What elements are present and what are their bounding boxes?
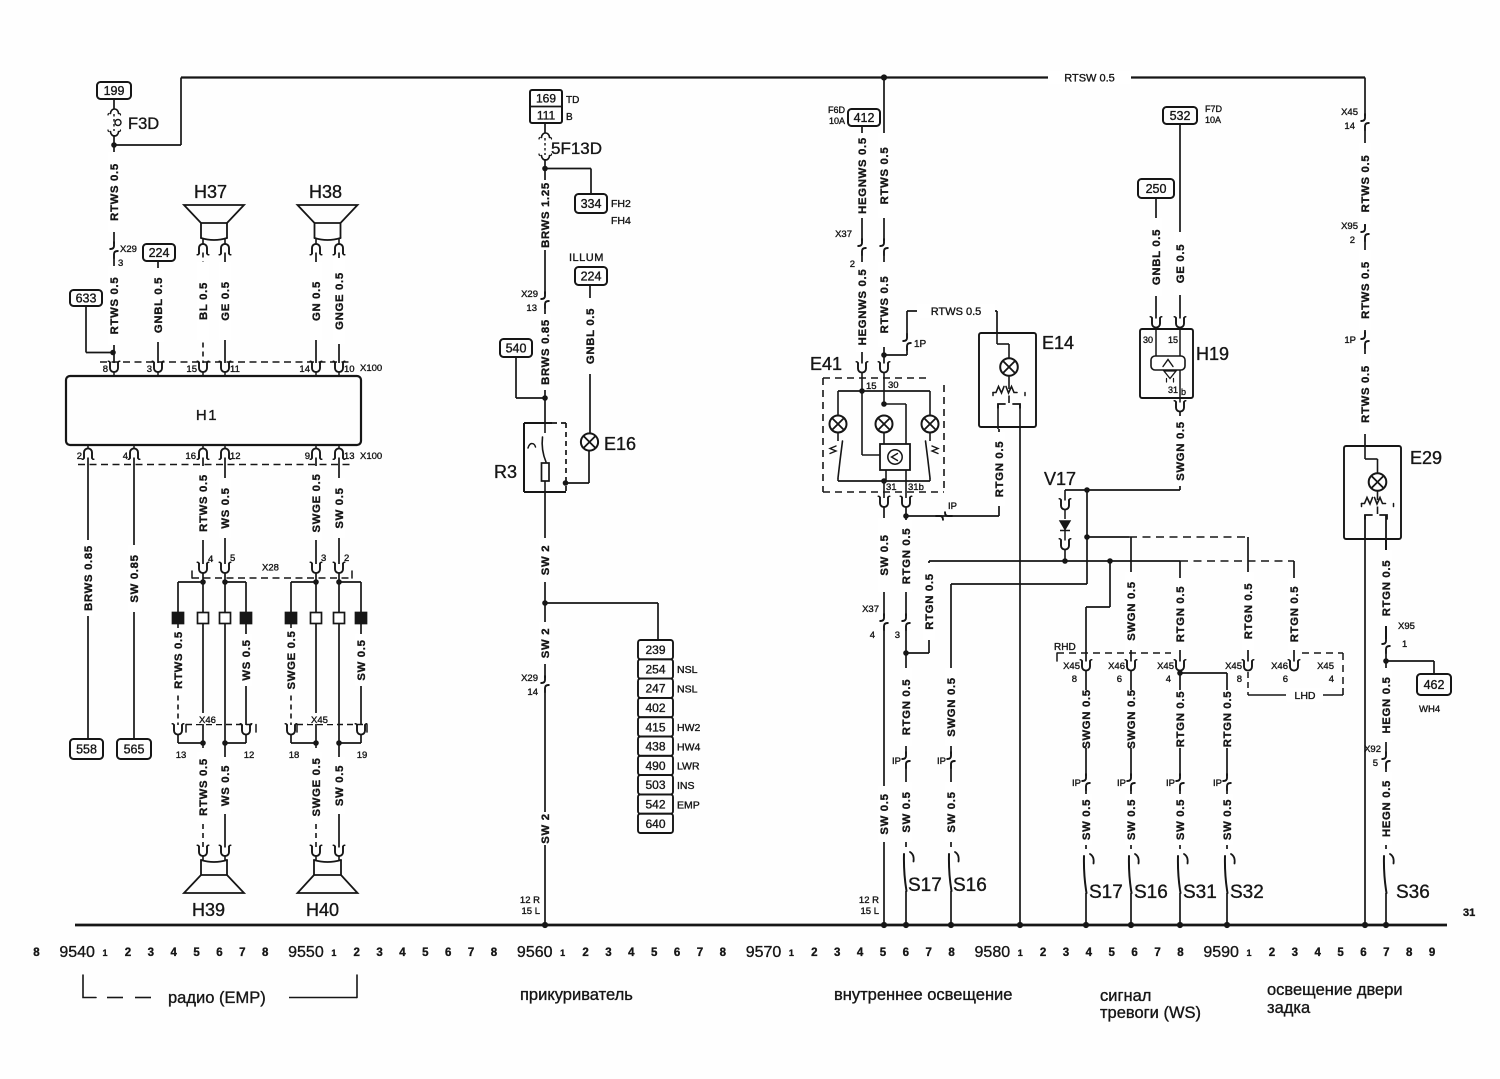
wire E29 left terminal to ground bus <box>1362 539 1368 928</box>
connector terminal squares <box>173 613 367 624</box>
wire dashed header to S16 interior <box>951 583 1087 585</box>
connector X45 pin 8 LHD <box>1225 660 1254 685</box>
svg-text:8: 8 <box>1237 674 1242 685</box>
distribution terminal boxes 239-640 <box>638 640 700 833</box>
connector X29 pin 3 <box>110 242 137 269</box>
wire SWGN 0.5 H19 to V17 <box>1065 412 1187 493</box>
svg-text:X45: X45 <box>1341 107 1358 118</box>
svg-text:RTGN 0.5: RTGN 0.5 <box>901 528 913 584</box>
svg-text:8: 8 <box>1072 674 1077 685</box>
svg-text:6: 6 <box>1360 947 1366 959</box>
svg-text:EMP: EMP <box>677 799 700 811</box>
wire SWGE 0.5 H1 pin 9 to X28 pin 3 <box>310 458 327 565</box>
svg-text:8: 8 <box>1406 947 1413 959</box>
svg-text:X46: X46 <box>199 715 216 726</box>
svg-text:IP: IP <box>1072 778 1081 789</box>
loudspeaker H39 <box>184 845 244 920</box>
connector IP instrument panel <box>903 334 926 350</box>
connector X46 pin 6 LHD <box>1271 660 1300 685</box>
connector X29 pin 14 <box>521 673 549 698</box>
wire SWGN 0.5 to alarm S17 <box>1080 671 1093 777</box>
svg-text:169: 169 <box>536 92 556 106</box>
svg-text:R3: R3 <box>494 462 517 482</box>
wire square to X45 junction left <box>315 624 317 744</box>
LHD variant marker <box>1248 653 1343 702</box>
connector X45 radio <box>285 713 367 761</box>
svg-text:RTWS 0.5: RTWS 0.5 <box>109 163 121 221</box>
svg-text:LHD: LHD <box>1294 690 1315 702</box>
svg-text:FH2: FH2 <box>611 198 631 210</box>
E41 lamp 2 to rheostat <box>883 433 885 445</box>
svg-text:SWGN 0.5: SWGN 0.5 <box>1126 581 1138 641</box>
wire junction through connector IP to E14 <box>906 501 999 520</box>
wire RTWS 0.5 X29 to H1 pin 8 <box>108 258 121 363</box>
svg-text:1: 1 <box>560 948 565 958</box>
svg-text:SWGN 0.5: SWGN 0.5 <box>1126 689 1138 749</box>
svg-text:3: 3 <box>1063 947 1069 959</box>
svg-text:X45: X45 <box>1317 661 1334 672</box>
loudspeaker H38 <box>298 182 358 255</box>
radio unit H1 <box>66 376 361 445</box>
wire 199 to fuse F3D <box>113 99 115 109</box>
svg-text:WS 0.5: WS 0.5 <box>220 487 232 528</box>
wire SW 0.5 to alarm S16 <box>1125 790 1138 849</box>
wire WS 0.5 square to X46 pin 12 <box>240 624 253 726</box>
svg-text:RTWS 0.5: RTWS 0.5 <box>109 277 121 335</box>
svg-text:10: 10 <box>344 364 355 375</box>
svg-text:SW 2: SW 2 <box>540 545 552 575</box>
wire RTWS 0.5 to lamp E29 <box>1359 348 1372 446</box>
svg-text:5: 5 <box>651 947 658 959</box>
diode V17 <box>1044 469 1076 564</box>
connector X28 <box>192 560 352 578</box>
svg-text:30: 30 <box>888 380 899 391</box>
connector IP alarm S17 <box>1072 774 1090 790</box>
wire SW 2 to X29 pin 14 <box>539 603 552 678</box>
svg-text:565: 565 <box>124 743 145 757</box>
wire E14 to ground bus <box>1017 427 1023 928</box>
svg-text:прикуриватель: прикуриватель <box>520 986 633 1004</box>
connector X45 pin 4 LHD label <box>1317 661 1334 685</box>
connector X37 pin 1 <box>880 239 888 255</box>
svg-text:1P: 1P <box>1344 335 1356 346</box>
svg-text:15 L: 15 L <box>522 906 541 917</box>
svg-text:освещение двери: освещение двери <box>1267 981 1403 999</box>
svg-text:FH4: FH4 <box>611 215 631 227</box>
svg-text:F7D: F7D <box>1205 104 1223 114</box>
svg-text:RTGN 0.5: RTGN 0.5 <box>1175 586 1187 642</box>
caption interior lighting <box>834 986 1012 1004</box>
svg-text:402: 402 <box>645 701 665 715</box>
svg-text:IP: IP <box>1213 778 1222 789</box>
wire BRWS 1.25 to X29 pin 13 <box>539 169 552 295</box>
wire RTWS 0.5 H1 pin 16 to X28 pin 4 <box>197 458 214 566</box>
wire RTGN 0.5 up to lamp E14 <box>993 429 1006 516</box>
svg-text:9550: 9550 <box>288 944 324 961</box>
branch junction to connector IP <box>884 350 907 355</box>
svg-text:RTWS 0.5: RTWS 0.5 <box>1360 155 1372 213</box>
svg-text:8: 8 <box>262 947 269 959</box>
svg-text:6: 6 <box>445 947 451 959</box>
wire SW 0.5 to switch S16 interior <box>945 768 958 847</box>
connector X45 pin 14 <box>1341 107 1369 132</box>
svg-text:H37: H37 <box>194 182 227 202</box>
svg-text:H38: H38 <box>309 182 342 202</box>
svg-text:4: 4 <box>870 630 875 641</box>
connector X100 top row <box>100 361 382 376</box>
svg-text:SW 2: SW 2 <box>540 628 552 658</box>
svg-text:4: 4 <box>1329 674 1334 685</box>
wire GE 0.5 H37 to H1 pin 11 <box>219 253 232 364</box>
svg-text:F3D: F3D <box>128 115 159 133</box>
wire junction to distribution boxes <box>545 603 658 640</box>
svg-text:X29: X29 <box>521 673 538 684</box>
svg-text:GE 0.5: GE 0.5 <box>220 281 232 320</box>
svg-text:SWGN 0.5: SWGN 0.5 <box>1081 689 1093 749</box>
tailgate lamp E29 <box>1344 446 1442 539</box>
svg-text:18: 18 <box>289 750 300 761</box>
svg-text:30: 30 <box>1143 335 1153 345</box>
svg-text:1: 1 <box>1018 948 1023 958</box>
svg-text:RTGN 0.5: RTGN 0.5 <box>1243 583 1255 639</box>
wire GNGE 0.5 H38 to H1 pin 10 <box>333 253 346 364</box>
wire RTGN 0.5 dashed to X45 pin 8 LHD <box>1242 537 1255 662</box>
svg-text:SW 0.5: SW 0.5 <box>1175 799 1187 840</box>
svg-text:540: 540 <box>506 342 527 356</box>
svg-text:RTGN 0.5: RTGN 0.5 <box>1381 560 1393 616</box>
wire HEGN 0.5 to switch S36 <box>1380 768 1393 849</box>
connector X95 pin 2 <box>1341 221 1369 246</box>
svg-text:X29: X29 <box>521 289 538 300</box>
current track numbers <box>33 944 1435 961</box>
svg-text:2: 2 <box>1350 235 1355 246</box>
svg-text:7: 7 <box>926 947 932 959</box>
wire SW 0.5 to alarm S17 <box>1080 790 1093 849</box>
svg-text:2: 2 <box>850 259 855 270</box>
wire BL 0.5 H37 to H1 pin 15 <box>197 253 210 364</box>
svg-text:15 L: 15 L <box>861 906 880 917</box>
svg-text:S16: S16 <box>953 875 987 896</box>
svg-text:BRWS 0.85: BRWS 0.85 <box>540 319 552 385</box>
wire BRWS 0.85 X29 to R3 <box>539 308 552 423</box>
svg-text:9: 9 <box>1429 947 1435 959</box>
svg-text:1: 1 <box>103 948 108 958</box>
door switch S32 alarm <box>1224 854 1264 928</box>
svg-text:X45: X45 <box>1157 661 1174 672</box>
fuse F3D <box>108 109 159 136</box>
interior lamp E41 enclosure <box>810 354 944 492</box>
svg-text:3: 3 <box>376 947 382 959</box>
svg-text:RTGN 0.5: RTGN 0.5 <box>994 441 1006 497</box>
door switch S17 interior <box>903 852 942 928</box>
wire SW 0.5 H1 pin 13 to X28 pin 2 <box>333 458 350 565</box>
loudspeaker H40 <box>298 845 358 920</box>
svg-text:5: 5 <box>880 947 887 959</box>
svg-text:239: 239 <box>645 643 665 657</box>
svg-text:X29: X29 <box>120 244 137 255</box>
wire RTGN 0.5 to alarm S32 <box>1221 678 1234 776</box>
svg-text:5: 5 <box>1109 947 1116 959</box>
svg-text:4: 4 <box>208 554 213 565</box>
svg-text:6: 6 <box>674 947 680 959</box>
wire V17 bypass vertical <box>1084 490 1090 584</box>
svg-text:внутреннее освещение: внутреннее освещение <box>834 986 1012 1004</box>
terminal box 462 WH4 <box>1417 674 1451 715</box>
wire RTGN 0.5 header to X45 pin 4 <box>1174 561 1187 662</box>
svg-text:633: 633 <box>76 292 97 306</box>
svg-text:RTSW 0.5: RTSW 0.5 <box>1064 73 1115 85</box>
svg-text:10A: 10A <box>1205 115 1221 125</box>
svg-text:X46: X46 <box>1271 661 1288 672</box>
svg-text:HEGNWS 0.5: HEGNWS 0.5 <box>857 269 869 346</box>
wire SW 0.5 E41 pin 31 to X37 pin 4 <box>878 507 891 616</box>
svg-text:6: 6 <box>1283 674 1288 685</box>
svg-text:8: 8 <box>103 364 108 375</box>
svg-text:13: 13 <box>526 303 537 314</box>
svg-text:12: 12 <box>244 750 255 761</box>
svg-text:15: 15 <box>1168 335 1178 345</box>
svg-text:H40: H40 <box>306 900 339 920</box>
wire dashed upper header <box>1087 536 1248 538</box>
svg-text:IP: IP <box>1117 778 1126 789</box>
svg-text:15: 15 <box>186 364 197 375</box>
svg-text:31: 31 <box>886 482 897 493</box>
svg-text:31b: 31b <box>908 482 924 493</box>
svg-text:8: 8 <box>33 947 40 959</box>
X46 junctions to speaker H39 <box>178 735 246 746</box>
svg-text:SW 0.5: SW 0.5 <box>879 793 891 834</box>
wire SWGN 0.5 header to S16 interior <box>945 584 958 754</box>
svg-text:V17: V17 <box>1044 469 1076 489</box>
svg-text:WS 0.5: WS 0.5 <box>220 765 232 806</box>
svg-text:E14: E14 <box>1042 333 1074 353</box>
svg-text:10A: 10A <box>829 116 845 126</box>
svg-text:9580: 9580 <box>975 944 1011 961</box>
svg-text:8: 8 <box>491 947 498 959</box>
svg-text:9570: 9570 <box>746 944 782 961</box>
svg-text:5: 5 <box>193 947 200 959</box>
terminal box 633 <box>70 290 102 306</box>
svg-text:X46: X46 <box>1108 661 1125 672</box>
wire junction to top bus <box>114 78 181 146</box>
svg-text:IP: IP <box>1166 778 1175 789</box>
svg-text:1: 1 <box>331 948 336 958</box>
svg-text:S31: S31 <box>1183 882 1217 903</box>
ground bus line 31 <box>75 907 1475 925</box>
door switch S31 alarm <box>1177 854 1217 928</box>
wire RTWS 0.5 to X95 pin 2 <box>1359 130 1372 227</box>
svg-text:8: 8 <box>948 947 955 959</box>
svg-text:254: 254 <box>645 662 665 676</box>
svg-text:14: 14 <box>527 687 538 698</box>
svg-text:S17: S17 <box>908 875 942 896</box>
wire RTWS 0.5 to IP <box>1359 241 1372 334</box>
svg-text:640: 640 <box>645 817 665 831</box>
svg-text:31: 31 <box>1168 385 1178 395</box>
svg-text:542: 542 <box>645 797 665 811</box>
wire 540 to junction <box>516 357 545 398</box>
wire RTWS 0.5 bus to X37 pin 1 <box>878 78 891 242</box>
svg-text:4: 4 <box>123 451 128 462</box>
svg-text:5F13D: 5F13D <box>551 139 602 158</box>
svg-text:6: 6 <box>216 947 222 959</box>
svg-text:X95: X95 <box>1341 221 1358 232</box>
svg-text:6: 6 <box>903 947 909 959</box>
svg-text:B: B <box>566 112 573 123</box>
svg-text:WH4: WH4 <box>1419 704 1440 715</box>
svg-text:12 R: 12 R <box>859 895 879 906</box>
svg-text:RTWS 0.5: RTWS 0.5 <box>879 147 891 205</box>
warning buzzer H19 <box>1140 317 1229 412</box>
svg-text:9560: 9560 <box>517 944 553 961</box>
svg-text:5: 5 <box>1337 947 1344 959</box>
svg-text:X28: X28 <box>262 563 279 574</box>
connector X100 bottom row <box>77 445 382 465</box>
wire SWGE 0.5 square to X45 pin 18 <box>285 624 298 726</box>
terminal box 169 TD / 111 B <box>530 90 579 123</box>
wire GNBL 0.5 250 to H19 pin 30 <box>1150 198 1163 319</box>
svg-text:X100: X100 <box>360 363 382 374</box>
svg-text:247: 247 <box>645 682 665 696</box>
svg-text:RTWS 0.5: RTWS 0.5 <box>1360 261 1372 319</box>
connector IP tailgate <box>1344 332 1368 348</box>
wire RTGN 0.5 dashed to X46 pin 6 LHD <box>1288 561 1301 662</box>
svg-text:SW 0.5: SW 0.5 <box>334 487 346 528</box>
svg-text:3: 3 <box>834 947 840 959</box>
svg-text:HEGNWS 0.5: HEGNWS 0.5 <box>857 137 869 214</box>
wire WS 0.5 to H39 <box>219 743 232 848</box>
svg-text:BRWS 0.85: BRWS 0.85 <box>83 545 95 611</box>
RHD variant marker <box>1054 642 1171 661</box>
wire GN 0.5 H38 to H1 pin 14 <box>310 253 323 364</box>
svg-text:14: 14 <box>1344 121 1355 132</box>
svg-text:SWGN 0.5: SWGN 0.5 <box>1175 421 1187 481</box>
svg-text:1: 1 <box>1247 948 1252 958</box>
ILLUM label <box>569 252 604 264</box>
svg-text:INS: INS <box>677 780 695 792</box>
connector IP alarm S16 <box>1117 774 1135 790</box>
wire SWGE 0.5 to H40 <box>310 743 323 848</box>
svg-text:SWGE 0.5: SWGE 0.5 <box>286 631 298 690</box>
connector X45 pin 8 <box>1063 660 1092 685</box>
door switch S17 alarm <box>1083 854 1123 928</box>
svg-text:14: 14 <box>299 364 310 375</box>
svg-text:RTGN 0.5: RTGN 0.5 <box>1289 586 1301 642</box>
svg-text:RHD: RHD <box>1054 642 1076 653</box>
wire fuse F3D to junction <box>111 135 117 148</box>
svg-text:SWGN 0.5: SWGN 0.5 <box>946 677 958 737</box>
svg-text:RTGN 0.5: RTGN 0.5 <box>1222 691 1234 747</box>
svg-text:19: 19 <box>357 750 368 761</box>
connector X29 pin 13 <box>521 289 549 314</box>
wire SW 0.85 H1 pin 4 to box 565 <box>128 458 141 740</box>
svg-text:BL 0.5: BL 0.5 <box>198 282 210 320</box>
terminal box 224 ILLUM <box>575 267 607 285</box>
connector IP S16 interior <box>937 752 955 768</box>
svg-text:7: 7 <box>1383 947 1389 959</box>
svg-text:3: 3 <box>147 364 152 375</box>
wire square to X45 junction right <box>338 624 340 744</box>
terminal box 565 <box>117 739 151 759</box>
svg-text:X95: X95 <box>1398 621 1415 632</box>
wire RTWS 0.5 to connector X29 pin 3 <box>108 145 121 244</box>
svg-text:H39: H39 <box>192 900 225 920</box>
svg-text:радио (ЕМР): радио (ЕМР) <box>168 989 266 1007</box>
svg-text:13: 13 <box>344 451 355 462</box>
svg-text:RTWS 0.5: RTWS 0.5 <box>1360 365 1372 423</box>
svg-text:сигнал: сигнал <box>1100 987 1151 1005</box>
E41 pins 15 and 30 <box>856 362 898 404</box>
wire SWGN 0.5 header to X46 pin 6 <box>1125 537 1138 662</box>
terminal box 558 <box>70 739 103 759</box>
wire F13D to junction <box>542 159 548 171</box>
wire SW 0.5 to H40 <box>333 743 346 848</box>
svg-text:LWR: LWR <box>677 761 700 773</box>
wire WS 0.5 H1 pin 12 to X28 pin 5 <box>219 458 236 565</box>
svg-text:9590: 9590 <box>1203 944 1239 961</box>
svg-text:HW4: HW4 <box>677 741 700 753</box>
svg-text:558: 558 <box>76 743 97 757</box>
wire 633 to junction <box>86 306 113 353</box>
svg-text:9: 9 <box>305 451 310 462</box>
E41 door switch left <box>830 433 843 482</box>
E41 bottom bus <box>838 470 930 498</box>
svg-text:4: 4 <box>628 947 635 959</box>
wire RTGN header line <box>929 558 1294 564</box>
svg-text:6: 6 <box>1117 674 1122 685</box>
svg-text:334: 334 <box>581 197 602 211</box>
terminal box 334 FH2 FH4 <box>575 194 631 227</box>
svg-text:250: 250 <box>1146 182 1167 196</box>
E41 lamp 2 <box>876 401 893 432</box>
X45 pin 4 junction to S31 and S32 <box>1177 670 1227 678</box>
wire RTWS 0.5 X37 to E41 pin 30 <box>878 255 891 364</box>
connector X45 pin 4 <box>1157 660 1186 685</box>
svg-text:X100: X100 <box>360 451 382 462</box>
svg-text:7: 7 <box>697 947 703 959</box>
svg-text:412: 412 <box>854 111 875 125</box>
E41 lamp bus <box>838 388 930 394</box>
wire SW 0.5 to switch S17 interior <box>900 768 913 847</box>
X45 junctions to speaker H40 <box>291 735 361 746</box>
svg-text:4: 4 <box>1166 674 1171 685</box>
svg-text:2: 2 <box>125 947 131 959</box>
svg-text:3: 3 <box>605 947 611 959</box>
svg-text:E16: E16 <box>604 434 636 454</box>
svg-text:X45: X45 <box>311 715 328 726</box>
E41 rheostat timer box <box>880 444 910 470</box>
connector X46 pin 6 <box>1108 660 1137 685</box>
door switch S16 interior <box>948 852 987 928</box>
wire SW 0.5 to alarm S31 <box>1174 790 1187 849</box>
svg-text:X45: X45 <box>1225 661 1242 672</box>
wire junction to box 334 <box>545 169 591 195</box>
svg-text:E29: E29 <box>1410 448 1442 468</box>
terminal box 540 <box>500 339 532 357</box>
svg-text:111: 111 <box>537 109 556 123</box>
svg-text:13: 13 <box>176 750 187 761</box>
svg-text:3: 3 <box>1292 947 1298 959</box>
svg-text:IP: IP <box>948 501 957 512</box>
svg-text:b: b <box>1181 387 1186 397</box>
svg-text:IP: IP <box>892 756 901 767</box>
E41 door switch right <box>926 433 939 482</box>
svg-text:16: 16 <box>185 451 196 462</box>
svg-text:1: 1 <box>1402 639 1407 650</box>
svg-text:12 R: 12 R <box>520 895 540 906</box>
svg-text:7: 7 <box>1154 947 1160 959</box>
svg-text:RTWS 0.5: RTWS 0.5 <box>931 306 982 318</box>
